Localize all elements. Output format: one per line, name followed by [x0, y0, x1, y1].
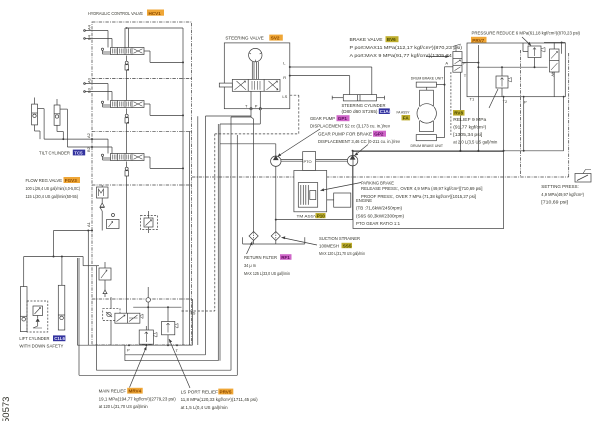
node LS label bottom	[191, 311, 196, 316]
node A1 label	[86, 221, 91, 227]
steering valve spool U1	[219, 79, 280, 91]
svg-text:A3: A3	[87, 77, 92, 83]
svg-text:at 1,5 L(0,4 US gal)/min: at 1,5 L(0,4 US gal)/min	[181, 405, 229, 410]
label SETTING PRESS	[541, 184, 584, 204]
wire T return from steering	[231, 110, 254, 370]
svg-text:T: T	[245, 103, 248, 108]
svg-text:at 120 L(31,70 US gal)/min: at 120 L(31,70 US gal)/min	[99, 404, 149, 409]
label TILT CYLINDER	[39, 150, 85, 156]
svg-text:L: L	[283, 60, 286, 65]
relief valve RV8 symbol	[496, 66, 512, 97]
svg-text:STEERING CYLINDER: STEERING CYLINDER	[342, 103, 387, 108]
svg-text:11,8 MPa(120,33 kgf/cm²)(1711,: 11,8 MPa(120,33 kgf/cm²)(1711,45 psi)	[181, 397, 259, 402]
unload spool valve	[115, 313, 143, 323]
svg-text:TC5: TC5	[74, 150, 83, 155]
svg-text:LIFT CYLINDER: LIFT CYLINDER	[19, 336, 50, 341]
steering valve SV2 enclosure	[224, 43, 289, 109]
tank	[243, 237, 305, 244]
port stubs A2 B2 to tilt cylinders	[44, 138, 112, 153]
svg-text:P: P	[127, 348, 130, 353]
directional valve section 1 (tilt/aux A4 B4)	[101, 48, 184, 64]
port stubs A4 B4	[84, 30, 112, 48]
svg-text:GEAR PUMP FOR BRAKE: GEAR PUMP FOR BRAKE	[318, 132, 372, 137]
tilt cylinder 2	[54, 99, 60, 125]
TM assy enclosure	[294, 171, 327, 212]
suction strainer SS5 symbol	[271, 232, 280, 241]
svg-text:LS: LS	[191, 311, 196, 316]
drum brake unit top	[416, 82, 436, 141]
node L R LS ports	[245, 60, 288, 108]
label PRESSURE REDUCE PRV7	[471, 30, 581, 43]
label STEERING CYLINDER C1A4	[342, 103, 392, 114]
svg-text:PRV7: PRV7	[472, 38, 484, 43]
brake valve BV6 symbol	[453, 44, 463, 72]
label figure number 50573	[1, 397, 12, 421]
wire leader GP2 to pump	[355, 145, 369, 156]
solenoid dump valve (dashed box)	[141, 211, 158, 233]
svg-text:P port:MAX11 MPa(112,17 kgf/cm: P port:MAX11 MPa(112,17 kgf/cm²)(870,23 …	[350, 45, 463, 50]
directional valve section 2 (A3 B3)	[101, 101, 184, 117]
wire steering R line	[289, 75, 350, 95]
svg-text:RF1: RF1	[281, 255, 290, 260]
steering cylinder C1A4	[332, 95, 384, 101]
svg-text:A: A	[445, 61, 448, 66]
pilot check valve (dashed box lower)	[103, 297, 120, 345]
svg-text:RV8: RV8	[454, 111, 463, 116]
svg-text:34 μ m: 34 μ m	[244, 263, 256, 268]
label STEERING VALVE SV2	[225, 35, 282, 41]
svg-text:PROOF PRESS:, OVER 7 MPa (71,3: PROOF PRESS:, OVER 7 MPa (71,38 kgf/cm²)…	[361, 194, 476, 199]
parking brake clutch	[298, 183, 317, 208]
svg-text:FA ASSY: FA ASSY	[397, 109, 410, 114]
svg-text:RETURN FILTER: RETURN FILTER	[244, 255, 277, 260]
svg-text:FLOW REG.VALVE: FLOW REG.VALVE	[26, 178, 63, 183]
PTO shaft	[281, 152, 347, 171]
svg-text:C1A4: C1A4	[380, 109, 392, 114]
label DRUM BRAKE UNIT top	[411, 75, 444, 80]
svg-text:GP2: GP2	[374, 132, 384, 137]
svg-text:100 L(26,4 US gal)/min(4,0-5,0: 100 L(26,4 US gal)/min(4,0-5,0C)	[26, 186, 81, 191]
wire leader MRV4	[130, 347, 147, 388]
svg-text:115 L(30,4 US gal)/min(50-55): 115 L(30,4 US gal)/min(50-55)	[26, 194, 79, 199]
svg-text:P: P	[255, 103, 258, 108]
svg-text:BRAKE VALVE: BRAKE VALVE	[350, 37, 383, 42]
svg-text:WITH DOWN SAFETY: WITH DOWN SAFETY	[19, 344, 63, 349]
check valve under section 2	[125, 109, 129, 154]
svg-text:RELEASE PRESS:, OVER 4,9 MPa (: RELEASE PRESS:, OVER 4,9 MPa (49,97 kgf/…	[361, 186, 483, 191]
svg-text:4,9 MPa(49,97 kgf/cm²): 4,9 MPa(49,97 kgf/cm²)	[541, 192, 584, 197]
label ENGINE block	[356, 198, 405, 226]
label FA ASSY	[397, 109, 411, 120]
svg-text:DRUM BRAKE UNIT: DRUM BRAKE UNIT	[411, 75, 444, 80]
wire PRV7 internal lines	[477, 42, 565, 151]
wire bottom U1 P T line	[77, 299, 192, 346]
LS port relief valve PRV5	[162, 322, 179, 347]
pressure compensator (left lower)	[99, 262, 111, 297]
svg-text:TM ASSY: TM ASSY	[297, 213, 318, 218]
node P T labels HCV bottom	[127, 348, 179, 354]
pressure reduce PRV7 enclosure	[467, 43, 565, 97]
label GEAR PUMP GP1	[310, 115, 391, 128]
label LS PORT RELIEF PRV5	[181, 389, 259, 410]
check valve under section 1	[125, 56, 129, 101]
svg-text:FGV3: FGV3	[65, 178, 77, 183]
svg-text:A4: A4	[87, 24, 92, 30]
gear pump GP1	[271, 144, 281, 167]
svg-text:T1: T1	[470, 97, 475, 102]
label SUCTION STRAINER SS5	[319, 236, 366, 256]
node A4 B4 labels	[87, 24, 92, 40]
lift cylinder 1	[20, 287, 27, 332]
wire tilt cylinder lines	[35, 109, 68, 147]
lift cylinder 2	[58, 285, 65, 330]
label BRAKE VALVE BV6	[350, 36, 463, 58]
svg-text:HYDRAULIC CONTROL VALVE: HYDRAULIC CONTROL VALVE	[88, 11, 143, 16]
wire leader to RV8	[489, 89, 498, 108]
label PARKING BRAKE block	[361, 181, 483, 199]
wire brake P and T	[460, 62, 479, 151]
wire arrow parking brake	[321, 183, 362, 192]
svg-text:PRV5: PRV5	[220, 389, 232, 394]
svg-text:LS: LS	[282, 94, 287, 99]
svg-text:SUCTION STRAINER: SUCTION STRAINER	[319, 236, 360, 241]
svg-text:C1L6: C1L6	[54, 336, 65, 341]
svg-text:FA: FA	[403, 116, 410, 121]
svg-text:P: P	[463, 61, 466, 66]
wire leader PRV5	[169, 339, 190, 388]
wire arrow to reduce valve	[522, 37, 531, 46]
label MAIN RELIEF MRV4	[99, 388, 177, 409]
svg-text:DISPLACEMENT 52 cc (3,173 cu.: DISPLACEMENT 52 cc (3,173 cu. in.)/rev	[310, 124, 391, 129]
svg-text:PTO GEAR RATIO 1:1: PTO GEAR RATIO 1:1	[356, 221, 401, 226]
svg-text:[710,69 psi]: [710,69 psi]	[541, 199, 568, 204]
label DRUM BRAKE UNIT bottom	[411, 143, 444, 148]
steering wheel	[249, 48, 262, 79]
svg-text:19,1 MPa(194,77 kgf/cm²)(2779,: 19,1 MPa(194,77 kgf/cm²)(2779,23 psi)	[99, 396, 177, 401]
svg-text:SS5: SS5	[343, 243, 352, 248]
check valve under section 3	[125, 162, 129, 314]
sequence valve symbol right	[550, 49, 560, 97]
wire LS gallery	[133, 306, 181, 321]
wire leader to strainer	[282, 236, 318, 245]
main relief valve MRV4	[139, 326, 157, 346]
down safety valve (dashed)	[27, 301, 48, 332]
wire left risers	[77, 230, 96, 376]
wire bottom U3	[96, 124, 231, 370]
node PTO label	[304, 159, 312, 164]
directional valve section 3 (tilt A2 B2)	[101, 154, 184, 170]
label FLOW REG.VALVE FGV3	[26, 177, 81, 199]
node A3 B3 labels	[87, 77, 92, 93]
port stubs A3 B3	[84, 83, 112, 101]
svg-text:P: P	[524, 100, 527, 105]
svg-text:GEAR PUMP: GEAR PUMP	[310, 116, 335, 121]
node brake valve A P T labels	[445, 61, 466, 78]
svg-text:PRESSURE REDUCE 6 MPa(61,18 k: PRESSURE REDUCE 6 MPa(61,18 kgf/cm²)(870…	[472, 30, 581, 35]
wire brake valve pilot dashed	[450, 72, 452, 135]
steering T P port circles	[250, 91, 262, 109]
orifice circle mid	[146, 287, 150, 330]
svg-text:LS PORT RELIEF: LS PORT RELIEF	[181, 389, 219, 394]
svg-text:at 2,0 L(3,5 US gal)/min: at 2,0 L(3,5 US gal)/min	[453, 140, 498, 145]
svg-text:B4: B4	[87, 34, 92, 40]
wire arrow to brake valve	[426, 55, 449, 58]
return filter RF1 symbol	[249, 232, 258, 241]
wire bottom U4	[79, 135, 237, 375]
label RV8 RELIEF	[453, 110, 498, 145]
flow regulator FGV3 symbol	[97, 185, 120, 231]
svg-text:100MESH: 100MESH	[319, 243, 339, 248]
svg-text:P10: P10	[317, 213, 326, 218]
engine enclosure box	[353, 152, 504, 229]
gear pump GP2	[347, 151, 357, 166]
wire brake A to drum brakes	[436, 67, 453, 138]
wire P supply rail y=143.8	[220, 110, 276, 361]
svg-text:A1: A1	[86, 221, 91, 227]
wire right rails	[353, 97, 564, 152]
wire HCV supply rail top	[125, 28, 183, 48]
wire bottom U2	[125, 116, 251, 355]
pressure switch (setting)	[575, 170, 591, 183]
wire mid risers	[190, 116, 198, 345]
label GEAR PUMP FOR BRAKE GP2	[318, 131, 401, 144]
wire dash-dot pilot verticals	[521, 50, 569, 178]
svg-text:R: R	[283, 75, 286, 80]
svg-text:(91,77 kgf/cm²): (91,77 kgf/cm²)	[453, 125, 487, 130]
svg-text:T: T	[176, 348, 179, 353]
pressure reducing valve symbol	[523, 43, 545, 67]
engine symbol	[327, 193, 351, 207]
svg-text:RELIEF 9 MPa: RELIEF 9 MPa	[453, 117, 487, 122]
svg-text:GP1: GP1	[338, 116, 348, 121]
svg-text:DRUM BRAKE UNIT: DRUM BRAKE UNIT	[411, 143, 444, 148]
hydraulic control valve HCV1 enclosure	[92, 22, 192, 345]
node T1 T2 P labels	[470, 97, 528, 105]
svg-text:DISPLACEMENT 3,46 CC (0-211 cu: DISPLACEMENT 3,46 CC (0-211 cu. in.)/rev	[318, 139, 401, 144]
wire leader GP1 to pump	[278, 129, 321, 157]
svg-text:BV6: BV6	[387, 37, 396, 42]
wire leader to return filter	[247, 242, 253, 255]
svg-text:B2: B2	[86, 146, 91, 152]
tilt cylinder 1	[32, 98, 38, 125]
wire LS dashed network	[182, 95, 299, 311]
svg-text:MRV4: MRV4	[129, 389, 142, 394]
wire steering L line	[289, 66, 372, 95]
svg-text:SV2: SV2	[271, 36, 280, 41]
svg-text:50573: 50573	[1, 397, 12, 421]
node A2 B2 labels	[86, 132, 91, 152]
svg-text:[1305,34 psi]: [1305,34 psi]	[453, 132, 482, 137]
junction dots misc	[126, 27, 565, 152]
label LIFT CYLINDER	[19, 335, 65, 348]
label HYDRAULIC CONTROL VALVE	[88, 10, 164, 17]
svg-text:MAX 125 L(33,0 US gal)/min: MAX 125 L(33,0 US gal)/min	[244, 271, 291, 276]
svg-text:MAIN RELIEF: MAIN RELIEF	[99, 389, 127, 394]
svg-text:HCV1: HCV1	[149, 11, 162, 16]
svg-text:SETTING PRESS:: SETTING PRESS:	[541, 184, 579, 189]
svg-text:T: T	[464, 73, 467, 78]
svg-text:ENGINE: ENGINE	[356, 198, 372, 203]
svg-text:STEERING VALVE: STEERING VALVE	[225, 36, 263, 41]
svg-text:(D80 d60 ST265): (D80 d60 ST265)	[342, 109, 379, 114]
svg-text:A2: A2	[86, 132, 91, 138]
wire dash-dot horizontal LS boundary	[192, 176, 569, 178]
svg-text:TILT CYLINDER: TILT CYLINDER	[39, 151, 71, 156]
wire suction lines	[275, 166, 353, 232]
wire lift feed lines	[24, 230, 99, 287]
svg-text:MAX 120 L(31,70 US gal)/min: MAX 120 L(31,70 US gal)/min	[319, 251, 366, 256]
svg-text:(S6S 60,3kW/2300rpm): (S6S 60,3kW/2300rpm)	[356, 213, 405, 218]
label TM ASSY P10	[297, 213, 326, 218]
svg-text:PARKING BRAKE: PARKING BRAKE	[361, 181, 394, 186]
svg-text:B3: B3	[87, 87, 92, 93]
label RETURN FILTER RF1	[244, 254, 292, 276]
svg-text:(TB :71,6kW/2450rpm): (TB :71,6kW/2450rpm)	[356, 206, 403, 211]
svg-text:PTO: PTO	[304, 159, 312, 164]
